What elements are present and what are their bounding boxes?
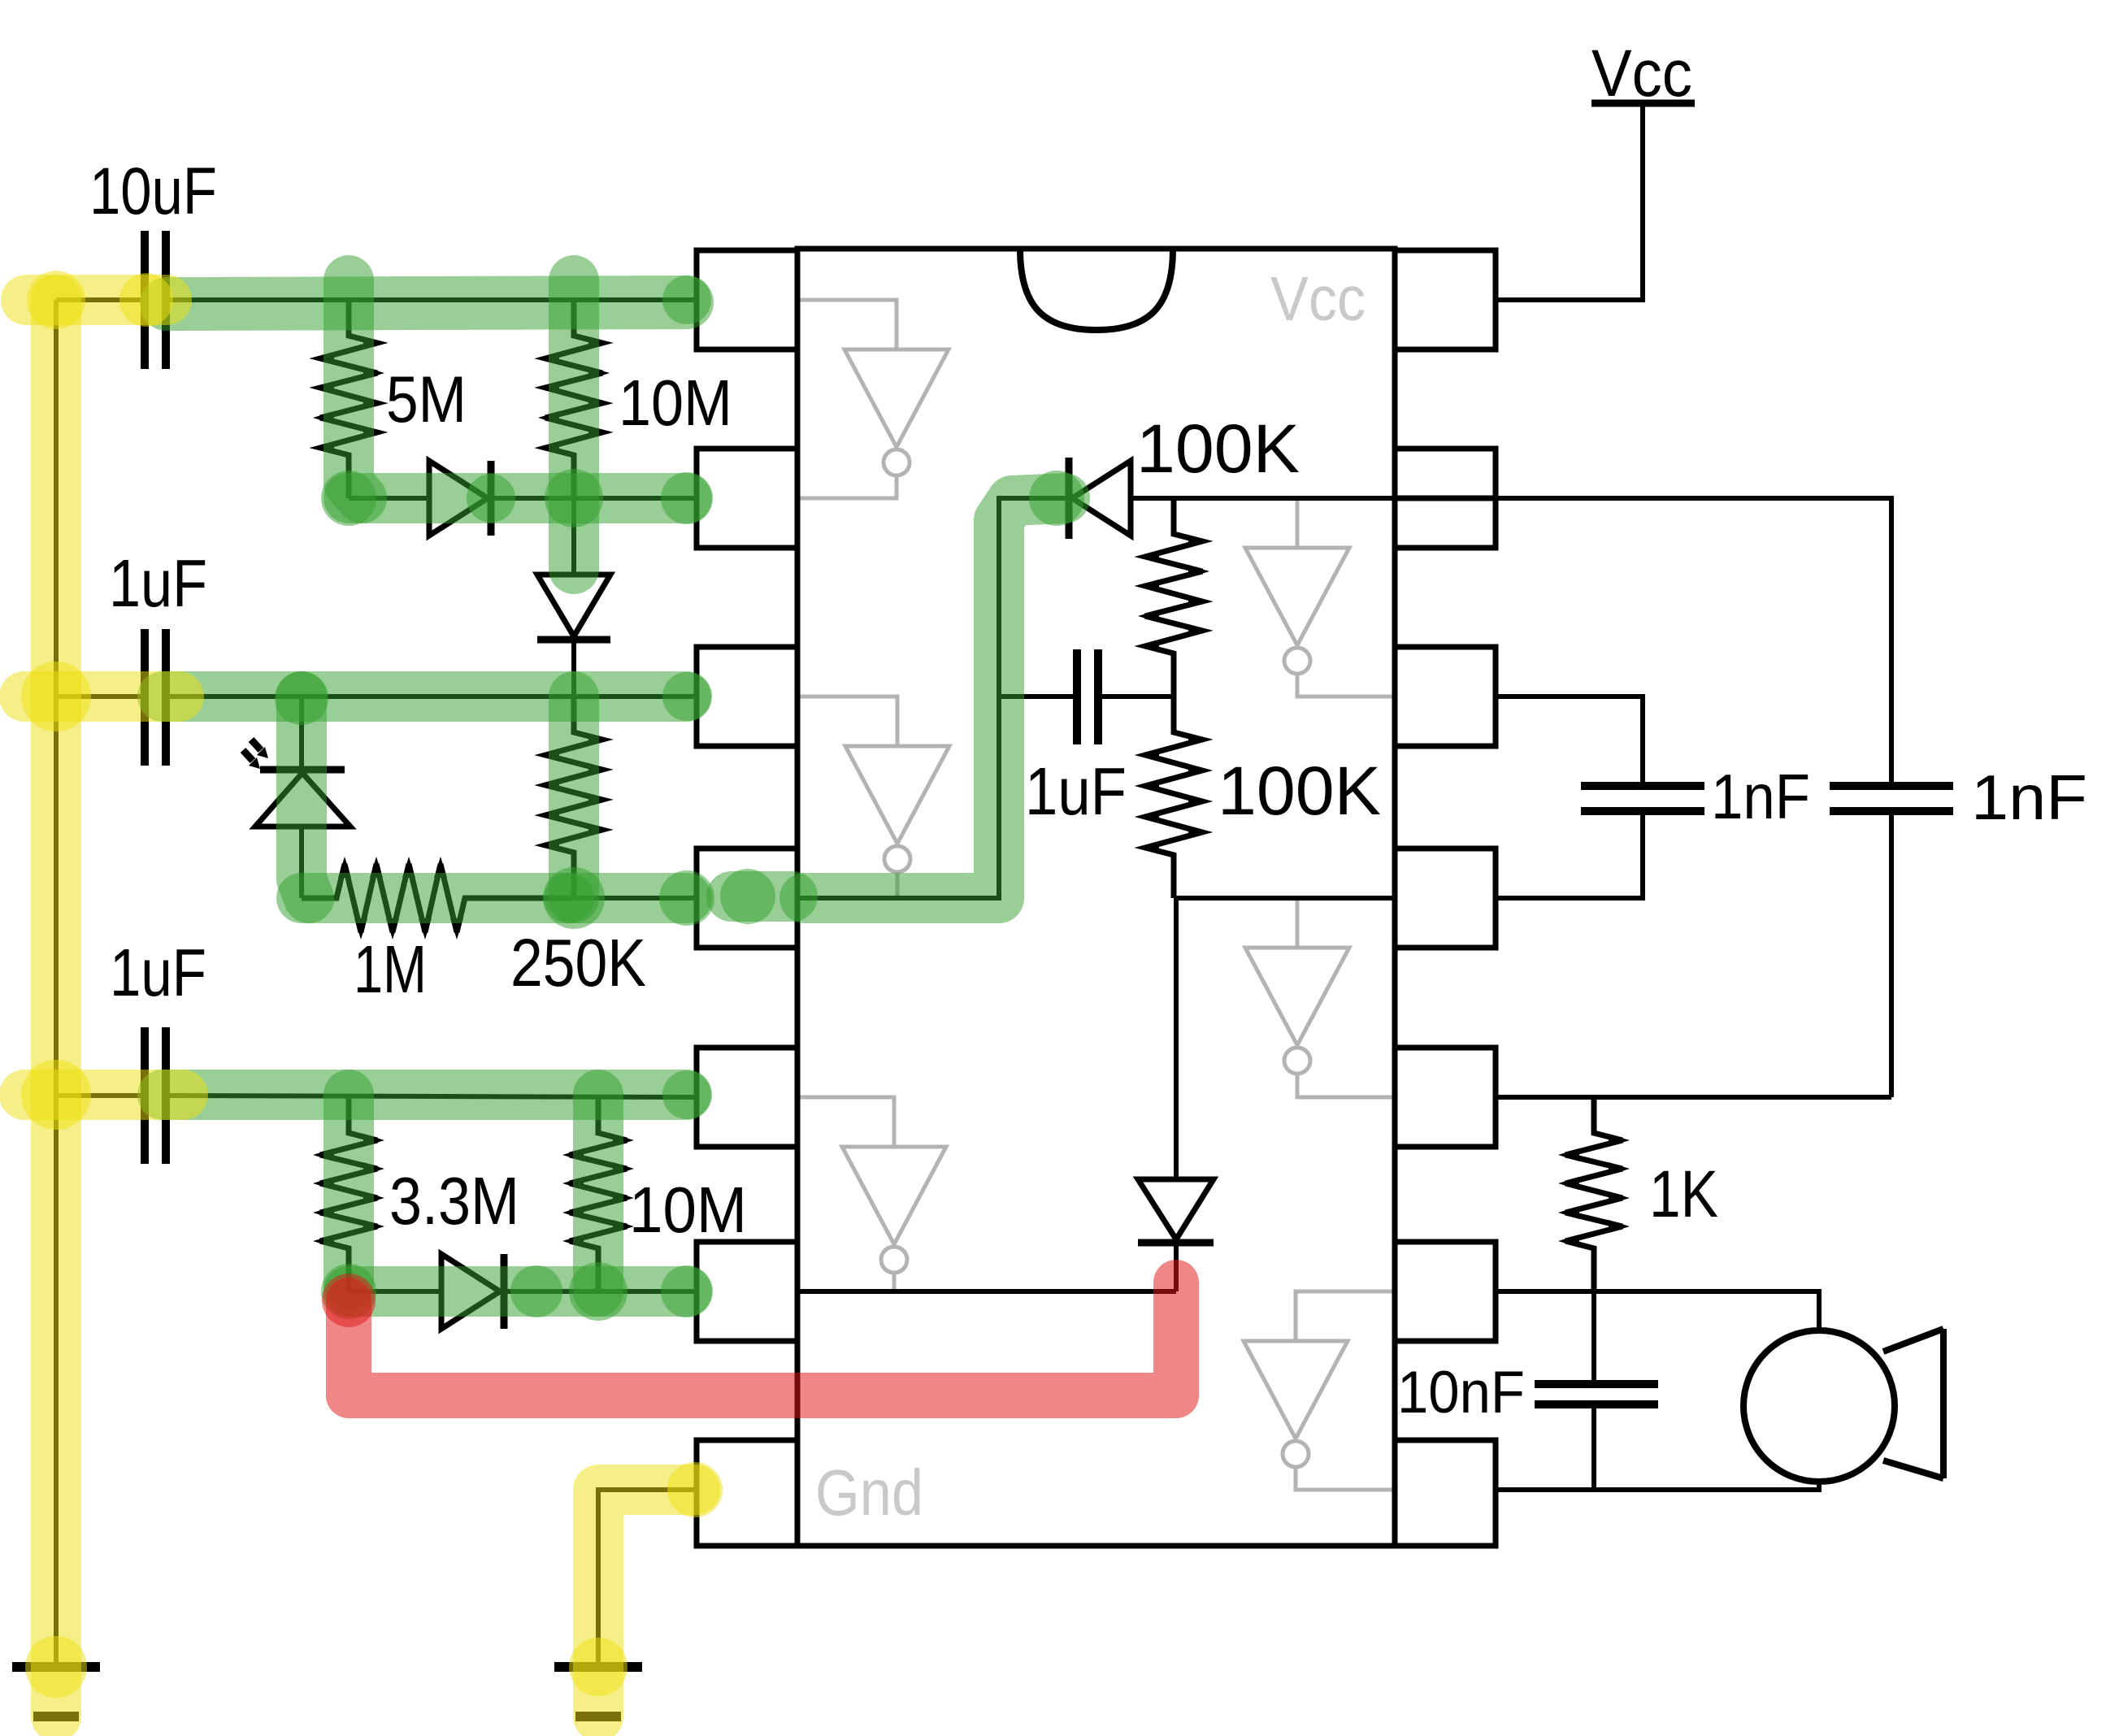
LED D3 (light sensor) (255, 697, 350, 898)
inverter U1E (797, 1097, 946, 1291)
ground symbol (left) (12, 1667, 100, 1716)
ground symbol (center) (554, 1667, 642, 1716)
wire: pin 8 net to speaker (1496, 1291, 1819, 1330)
wire: pin 10 net right side (1496, 697, 1643, 898)
U1 pin 8 box (1395, 1242, 1496, 1341)
svg-text:100K: 100K (1218, 753, 1381, 829)
svg-text:1K: 1K (1649, 1157, 1718, 1231)
U1 pin 8a box (bottom right) (1395, 1440, 1496, 1546)
svg-text:Vcc: Vcc (1270, 264, 1366, 334)
diode D5 (inside, pointing left) (1069, 458, 1131, 539)
svg-text:1nF: 1nF (1711, 761, 1810, 832)
capacitor C7 10nF (1535, 1384, 1658, 1404)
wire: pin 11 net inside IC (1174, 896, 1395, 901)
U1 pin 5 box (697, 1048, 797, 1147)
wire: pin 7 net to speaker bottom (1496, 1482, 1819, 1490)
resistor R5 3.3M (313, 1097, 384, 1291)
wire: C7 leads (1591, 1291, 1596, 1490)
wire: 3.3M output row (pin 6 net) (349, 1289, 697, 1294)
U1 pin 12 box (1395, 498, 1496, 548)
resistor R1 5M (313, 300, 384, 498)
wire: lower 1uF row (pin 5 net) (56, 1096, 697, 1097)
highlight: yellow ground rail (21, 271, 183, 1716)
svg-text:100K: 100K (1136, 410, 1300, 487)
wire: pin 12/13 net inside IC (1131, 496, 1395, 501)
U1 pin 14 box (Vcc) (1395, 250, 1496, 349)
diode D1 (series with 5M) (429, 461, 491, 536)
resistor R7 100K (1138, 498, 1209, 697)
U1 pin 4 box (697, 848, 797, 948)
svg-text:1uF: 1uF (109, 545, 207, 621)
svg-text:1M: 1M (354, 931, 427, 1007)
U1 pin 3 box (697, 647, 797, 746)
diode D4 (series with 3.3M) (441, 1254, 504, 1329)
wire: pin 9 net right side (1496, 1095, 1891, 1100)
svg-text:3.3M: 3.3M (389, 1163, 519, 1239)
U1 pin 2 box (697, 449, 797, 548)
resistor R3 1M (302, 857, 574, 940)
wire: left vertical rail to ground (54, 300, 59, 1667)
wire: pin 4 net inside IC (797, 498, 1069, 898)
wire: 1M/250K output to pin 4 (574, 896, 697, 901)
svg-text:5M: 5M (386, 363, 467, 436)
inverter U1B (1245, 498, 1395, 697)
U1 pin 9 box (1395, 1048, 1496, 1147)
highlight: green loop 1 (10uF oscillator) (167, 276, 713, 569)
IC U1 notch (1020, 249, 1173, 330)
wire: 1uF row (pin 3 net) (56, 694, 697, 699)
svg-text:1nF: 1nF (1971, 762, 2087, 833)
wire: pin 6 net across IC (797, 1289, 1176, 1294)
svg-text:Vcc: Vcc (1591, 37, 1692, 111)
capacitor C4 1uF (inside) (1077, 649, 1098, 744)
svg-text:10M: 10M (629, 1174, 747, 1246)
wire: 10uF row (pin 1 net) (56, 297, 697, 302)
highlight: yellow Gnd pin path (569, 1462, 723, 1716)
resistor R9 1K (1558, 1097, 1630, 1291)
capacitor C6 1nF (left) (1581, 786, 1704, 811)
svg-text:1uF: 1uF (1025, 753, 1127, 829)
svg-text:10nF: 10nF (1397, 1360, 1525, 1426)
capacitor C3 1uF (145, 1027, 166, 1164)
U1 pin 6 box (697, 1242, 797, 1341)
U1 pin 13 box (1395, 449, 1496, 498)
diode D2 (below 10M, pointing down) (537, 498, 610, 697)
LED D3 light arrows (243, 740, 268, 769)
highlight: green loop 2 (1uF + LED oscillator) (163, 671, 714, 929)
capacitor C2 1uF (145, 629, 166, 766)
svg-text:1uF: 1uF (110, 935, 206, 1010)
wire: C4 leads (999, 694, 1174, 699)
capacitor C5 1nF (right) (1830, 786, 1953, 811)
resistor R6 10M (562, 1097, 634, 1291)
inverter U1F (1244, 1291, 1395, 1490)
svg-text:Gnd: Gnd (815, 1456, 923, 1529)
IC U1 body (hex inverter) (797, 249, 1395, 1546)
capacitor C1 10uF (145, 231, 166, 369)
diode D6 (inside, pointing down) (1138, 898, 1214, 1291)
wire: 5M output row (pin 2 net) (349, 496, 697, 501)
U1 pin 11 box (1395, 647, 1496, 746)
inverter U1A (797, 300, 949, 498)
wire: Gnd pin to ground (598, 1490, 697, 1667)
resistor R2 10M (538, 300, 610, 498)
highlight: green loop 3 (3.3M oscillator) (163, 1070, 713, 1321)
svg-text:10uF: 10uF (89, 154, 217, 228)
U1 pin 10 box (1395, 848, 1496, 948)
U1 pin 7 box (Gnd) (697, 1440, 797, 1546)
speaker SP1 (1743, 1329, 1943, 1482)
resistor R8 100K (1138, 697, 1209, 898)
wire: pin 12/13 net right side (1496, 498, 1891, 1097)
svg-text:250K: 250K (510, 925, 646, 1000)
svg-text:10M: 10M (619, 367, 732, 439)
Vcc underline (1591, 100, 1695, 107)
wire: Vcc to pin 14 (1496, 103, 1643, 300)
resistor R4 250K (538, 697, 610, 896)
inverter U1C (797, 697, 949, 898)
highlight: green inside-IC path (pin 4 to diode D5) (720, 471, 1084, 924)
U1 pin 1 box (697, 250, 797, 349)
highlight: red path (pin 6 net feedback) (322, 1274, 1176, 1395)
inverter U1D (1245, 898, 1395, 1097)
